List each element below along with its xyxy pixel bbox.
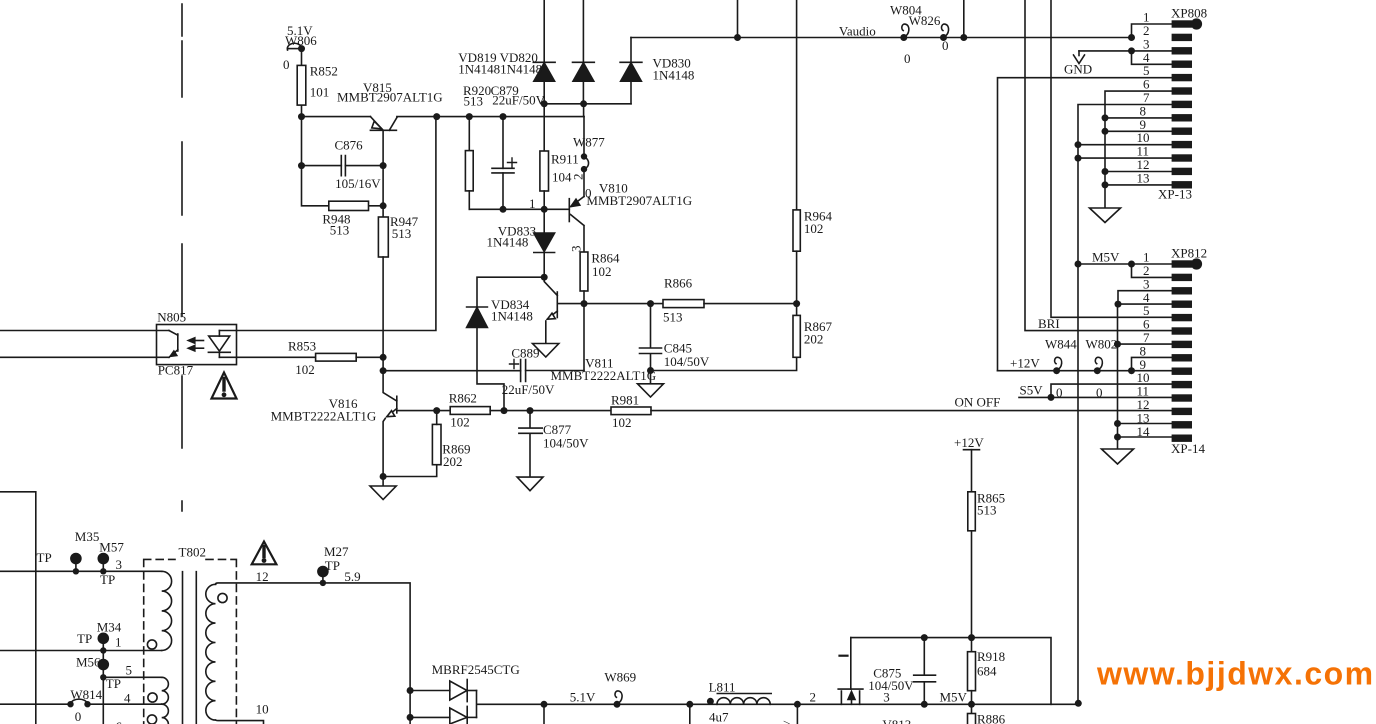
- resistor R853: [316, 353, 384, 361]
- jumper W869: [614, 691, 623, 708]
- svg-text:TP: TP: [325, 558, 340, 573]
- wire 5.1V / M5V bottom rail: [477, 691, 1079, 718]
- winding circle pin1: [147, 640, 156, 649]
- svg-text:W826: W826: [909, 13, 941, 28]
- svg-text:XP812: XP812: [1171, 246, 1207, 261]
- node anode rail: [541, 100, 548, 107]
- svg-text:W869: W869: [604, 670, 636, 685]
- capacitor C845: [640, 304, 662, 371]
- wire primary winding pin3: [0, 570, 162, 572]
- wire left corner column: [0, 492, 36, 724]
- separator dashed line: [181, 4, 183, 511]
- wire V810 base rail y=209.3: [469, 208, 569, 210]
- svg-text:T802: T802: [179, 545, 206, 560]
- svg-text:M57: M57: [99, 540, 124, 555]
- svg-text:5.9: 5.9: [344, 569, 360, 584]
- svg-text:0: 0: [904, 51, 911, 66]
- svg-text:2: 2: [571, 174, 586, 181]
- svg-text:104/50V: 104/50V: [543, 436, 589, 451]
- svg-text:XP-14: XP-14: [1171, 441, 1205, 456]
- svg-text:104: 104: [552, 170, 572, 185]
- wire XP812 pin3-4 bracket: [1118, 291, 1172, 304]
- node R918 bottom: [968, 701, 975, 708]
- resistor R911: [540, 104, 549, 210]
- svg-text:0: 0: [75, 709, 82, 724]
- node stub x689.8: [686, 701, 693, 708]
- svg-text:5.1V: 5.1V: [287, 23, 313, 38]
- svg-text:R911: R911: [551, 152, 579, 167]
- jumper W814: [67, 699, 90, 707]
- svg-text:BRI: BRI: [1038, 316, 1060, 331]
- svg-text:S5V: S5V: [1020, 383, 1044, 398]
- transistor V810: [569, 197, 584, 253]
- wire winding pin5: [103, 676, 161, 678]
- jumper W826: [940, 24, 949, 41]
- svg-text:R981: R981: [611, 393, 639, 408]
- wire XP808 pin7 / M5V column: [1078, 105, 1172, 704]
- wire secondary pin12 5.9: [216, 583, 411, 724]
- svg-text:22uF/50V: 22uF/50V: [502, 382, 555, 397]
- wire S5V pin10-11: [1019, 384, 1172, 397]
- svg-text:>: >: [783, 716, 790, 724]
- optocoupler LED: [208, 331, 236, 358]
- diode MBRF2545CTG upper: [410, 680, 476, 702]
- inductor L811: [707, 694, 771, 705]
- wire winding pin4: [0, 703, 162, 705]
- svg-text:R866: R866: [664, 276, 693, 291]
- svg-text:XP-13: XP-13: [1158, 187, 1192, 202]
- transistor V813 MOSFET: [838, 638, 863, 705]
- test point M57: [98, 554, 108, 575]
- capacitor C877: [519, 411, 542, 478]
- svg-text:GND: GND: [1064, 62, 1092, 77]
- wire XP808 pin10: [1078, 144, 1172, 146]
- svg-text:MMBT2907ALT1G: MMBT2907ALT1G: [586, 193, 692, 208]
- resistor R865: [968, 492, 976, 652]
- svg-text:4u7: 4u7: [709, 710, 729, 724]
- wire XP808 pin12: [1105, 171, 1172, 173]
- svg-text:+12V: +12V: [954, 435, 984, 450]
- svg-text:3: 3: [569, 246, 584, 253]
- transformer T802 core: [183, 572, 197, 724]
- diode VD820: [573, 0, 595, 104]
- diode VD819: [533, 0, 555, 104]
- svg-text:202: 202: [804, 332, 824, 347]
- node stub x544: [541, 701, 548, 708]
- watermark: [1096, 656, 1375, 692]
- connector XP808 pin3-4 GND bracket: [1079, 51, 1172, 64]
- svg-text:1N41481N4148: 1N41481N4148: [458, 62, 542, 77]
- node R948 right: [380, 202, 387, 209]
- warning triangle opto: [212, 373, 237, 399]
- diode VD830: [620, 38, 642, 104]
- ground V816: [370, 477, 396, 500]
- svg-text:104/50V: 104/50V: [868, 678, 914, 693]
- node R852 bottom: [298, 113, 305, 120]
- node M5V x1078: [1075, 700, 1082, 707]
- wire primary winding pin1: [0, 650, 162, 652]
- winding T802 secondary: [206, 584, 216, 720]
- wire XP812 gnd column pin4-7-13-14: [1118, 304, 1173, 449]
- svg-text:M27: M27: [324, 544, 349, 559]
- winding circle pin4: [148, 693, 157, 702]
- svg-text:W814: W814: [70, 687, 102, 702]
- svg-text:102: 102: [450, 415, 470, 430]
- node V815 base/C876: [380, 162, 387, 169]
- node stub x797.4: [794, 701, 801, 708]
- optocoupler phototransistor: [169, 331, 178, 358]
- svg-text:TP: TP: [100, 572, 115, 587]
- jumper W804: [900, 24, 909, 41]
- diode VD833: [534, 209, 555, 277]
- svg-text:TP: TP: [37, 550, 52, 565]
- labels R920 C879: [463, 83, 546, 109]
- jumper W877: [581, 153, 589, 172]
- svg-text:1N4148: 1N4148: [487, 235, 529, 250]
- svg-text:R918: R918: [977, 649, 1005, 664]
- svg-text:C876: C876: [335, 138, 364, 153]
- svg-text:+12V: +12V: [1010, 356, 1040, 371]
- wire opto bottom to R853: [237, 356, 316, 358]
- ground XP808: [1090, 208, 1121, 223]
- pin 1 label V810: [529, 196, 536, 211]
- wire VD834 branch: [477, 277, 544, 410]
- connector XP812: [1172, 258, 1203, 442]
- winding circle pin6: [147, 715, 156, 724]
- svg-text:TP: TP: [106, 676, 121, 691]
- jumper W844: [1053, 357, 1062, 374]
- label W806: [283, 23, 317, 72]
- svg-text:101: 101: [310, 85, 330, 100]
- wire XP808 pin5 to +12V corner: [998, 78, 1173, 371]
- node V815 right rail: [433, 113, 440, 120]
- svg-text:102: 102: [592, 264, 612, 279]
- svg-text:102: 102: [804, 221, 824, 236]
- node R853 right: [380, 354, 387, 361]
- svg-text:5: 5: [126, 663, 133, 678]
- svg-text:M5V: M5V: [1092, 250, 1120, 265]
- svg-text:Vaudio: Vaudio: [839, 24, 876, 39]
- wire XP808 pin8: [1105, 117, 1172, 119]
- node VD833 bottom: [541, 274, 548, 281]
- wire opto top to V815 rail: [237, 117, 436, 331]
- winding circle pin12: [218, 593, 227, 602]
- svg-text:W844: W844: [1045, 337, 1077, 352]
- wire drain rail y=637.6: [851, 638, 1051, 705]
- wire M5V link XP812 pin1-2: [1078, 264, 1172, 277]
- node V811 base / R864: [581, 300, 588, 307]
- optocoupler light arrows: [188, 338, 203, 351]
- node C879 top: [500, 113, 507, 120]
- resistor R869: [432, 411, 441, 465]
- diode VD834: [467, 307, 488, 328]
- svg-text:1: 1: [115, 635, 122, 650]
- wire XP808 pin13: [1105, 184, 1172, 186]
- transistor V815: [370, 117, 397, 166]
- wire x584 down to C889 rail: [583, 304, 585, 371]
- svg-text:ON OFF: ON OFF: [955, 395, 1001, 410]
- resistor R864: [580, 252, 588, 304]
- wire top stub x963.8: [963, 0, 965, 38]
- wire vertical x1051 to XP812 pin5: [1051, 0, 1172, 317]
- svg-text:MMBT2907ALT1G: MMBT2907ALT1G: [337, 90, 443, 105]
- node C876 left: [298, 162, 305, 169]
- warning triangle T802: [252, 542, 277, 565]
- resistor R867: [793, 304, 800, 358]
- wire R948 loop: [302, 166, 384, 217]
- svg-text:6: 6: [116, 719, 123, 724]
- wire C876 branch: [302, 117, 384, 166]
- svg-text:102: 102: [612, 415, 632, 430]
- resistor R852: [297, 49, 306, 117]
- resistor R964: [793, 0, 800, 304]
- node R866/R867: [793, 300, 800, 307]
- node R920 top: [466, 113, 473, 120]
- capacitor C875: [914, 638, 936, 705]
- svg-text:4: 4: [124, 691, 131, 706]
- diode MBRF2545CTG lower: [410, 706, 476, 724]
- svg-text:R886: R886: [977, 712, 1006, 724]
- ground GND symbol: [1074, 51, 1085, 64]
- node VD834 / ON OFF: [501, 407, 508, 414]
- svg-text:N805: N805: [157, 310, 186, 325]
- node V816 emitter: [380, 473, 387, 480]
- test point M56: [98, 651, 108, 724]
- svg-text:202: 202: [443, 454, 463, 469]
- svg-text:R853: R853: [288, 339, 316, 354]
- svg-text:513: 513: [977, 503, 997, 518]
- winding T802 aux 4-6: [162, 704, 169, 724]
- optocoupler N805 box: [157, 325, 237, 365]
- svg-text:2: 2: [810, 690, 817, 705]
- svg-text:C889: C889: [511, 346, 539, 361]
- svg-text:M35: M35: [75, 529, 100, 544]
- svg-text:12: 12: [256, 569, 269, 584]
- node C877 top: [527, 407, 534, 414]
- resistor R862: [450, 407, 611, 415]
- node C889 left: [380, 367, 387, 374]
- svg-text:513: 513: [392, 226, 412, 241]
- power +12V symbol: [964, 450, 980, 492]
- svg-text:W802: W802: [1086, 337, 1118, 352]
- wire top stub x737: [737, 0, 739, 38]
- svg-text:M5V: M5V: [940, 690, 968, 705]
- capacitor C889: [383, 360, 525, 382]
- jumper W806: [287, 43, 305, 52]
- svg-text:1N4148: 1N4148: [491, 309, 533, 324]
- svg-text:513: 513: [464, 94, 484, 109]
- capacitor C876: [341, 156, 345, 176]
- svg-text:5.1V: 5.1V: [570, 690, 596, 705]
- wire secondary pin10: [216, 720, 264, 724]
- svg-text:0: 0: [942, 38, 949, 53]
- wire main top rail y=116.6: [302, 116, 585, 118]
- svg-text:R852: R852: [310, 64, 338, 79]
- svg-text:513: 513: [663, 310, 683, 325]
- wire W877 column: [583, 104, 585, 197]
- test point M34: [98, 633, 108, 653]
- svg-text:1: 1: [529, 196, 536, 211]
- svg-text:1N4148: 1N4148: [653, 68, 695, 83]
- wire vertical x1025 to BRI: [1025, 0, 1172, 331]
- transistor V811: [544, 277, 663, 343]
- connector XP808: [1172, 18, 1203, 188]
- resistor R918: [968, 652, 976, 714]
- wire R869 bottom: [383, 465, 437, 477]
- resistor R886: [968, 714, 976, 724]
- svg-text:MBRF2545CTG: MBRF2545CTG: [432, 662, 520, 677]
- test point M35: [71, 554, 81, 575]
- transistor V816: [383, 357, 450, 476]
- svg-text:102: 102: [295, 362, 315, 377]
- ground V811 emitter: [533, 344, 559, 358]
- svg-text:3: 3: [116, 557, 123, 572]
- wire XP808 pin9: [1105, 130, 1172, 132]
- svg-text:www.bjjdwx.com: www.bjjdwx.com: [1096, 656, 1375, 692]
- svg-text:104/50V: 104/50V: [664, 354, 710, 369]
- ground C877: [517, 477, 543, 491]
- node R918 top: [968, 634, 975, 641]
- resistor R948: [329, 201, 369, 210]
- svg-text:0: 0: [283, 57, 290, 72]
- svg-text:513: 513: [330, 223, 350, 238]
- svg-text:13: 13: [1137, 170, 1150, 185]
- svg-text:684: 684: [977, 664, 997, 679]
- svg-text:R862: R862: [449, 391, 477, 406]
- ground C845: [638, 371, 664, 398]
- svg-text:PC817: PC817: [158, 363, 194, 378]
- svg-text:22uF/50V: 22uF/50V: [492, 93, 545, 108]
- svg-text:10: 10: [256, 702, 269, 717]
- resistor R866: [663, 300, 797, 308]
- svg-text:W877: W877: [573, 135, 605, 150]
- svg-text:V813: V813: [882, 717, 911, 724]
- capacitor C879: [492, 117, 517, 210]
- wire +12V rail: [998, 357, 1173, 370]
- svg-text:L811: L811: [709, 680, 736, 695]
- wire XP808 pin11: [1078, 157, 1172, 159]
- winding T802 primary 3-1: [162, 571, 172, 650]
- node C845 top: [647, 300, 654, 307]
- svg-text:14: 14: [1137, 424, 1151, 439]
- test point M27: [318, 567, 328, 587]
- optocoupler N805 wires left: [0, 331, 169, 358]
- svg-text:MMBT2222ALT1G: MMBT2222ALT1G: [271, 409, 377, 424]
- wire Vaudio rail: [631, 37, 1132, 39]
- transformer T802 dashed box: [144, 559, 237, 724]
- svg-text:M56: M56: [76, 655, 101, 670]
- svg-text:XP808: XP808: [1171, 6, 1207, 21]
- node R862 left: [433, 407, 440, 414]
- resistor R920: [465, 117, 473, 210]
- label ON OFF: [955, 395, 1001, 410]
- svg-text:M34: M34: [97, 620, 122, 635]
- wire C889/C845 bottom rail: [526, 357, 797, 370]
- svg-text:TP: TP: [77, 631, 92, 646]
- connector XP808 pin1 wire: [1132, 24, 1173, 38]
- resistor R981: [611, 407, 1172, 415]
- wire XP808 pin6 gnd column: [1105, 91, 1172, 208]
- ground XP812: [1102, 449, 1134, 464]
- node C845 bottom: [647, 367, 654, 374]
- resistor R947: [378, 217, 388, 357]
- svg-text:105/16V: 105/16V: [335, 176, 381, 191]
- winding T802 aux 5-4: [162, 677, 169, 704]
- jumper W802: [1094, 357, 1103, 374]
- wire diode anode rail: [544, 103, 631, 105]
